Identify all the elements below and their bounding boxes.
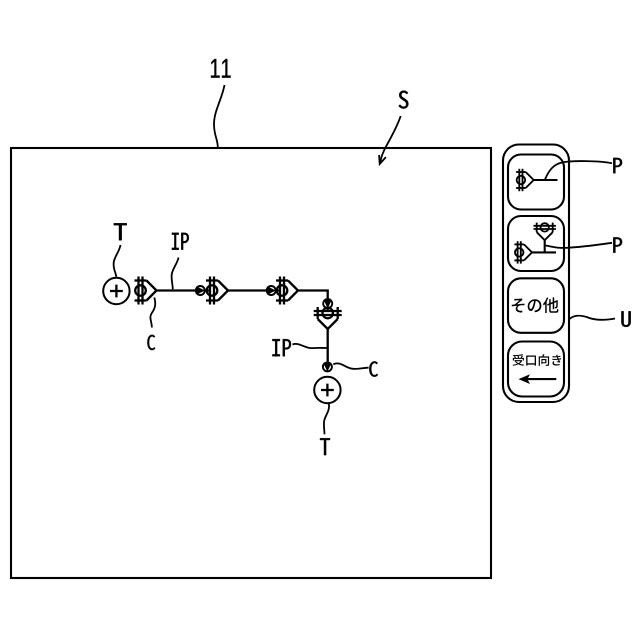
palette button 3 (sono-ta / others) [508, 278, 564, 333]
terminal T2 (circle with cross) [314, 377, 340, 403]
palette button 4 (ukeguchi-muki / socket direction) [508, 342, 564, 397]
leader for upper C [150, 298, 155, 328]
label IP (upper) [172, 233, 189, 250]
palette button P2 (tee pipe) [508, 216, 564, 271]
leader for label U [570, 316, 616, 320]
label IP (lower) [272, 339, 291, 356]
button P1 icon: pipe line [534, 179, 558, 181]
leader for upper T [114, 245, 121, 277]
direction marker C on pipe (before J3) [267, 286, 276, 295]
label C (upper) [147, 335, 155, 350]
label S [399, 91, 409, 109]
button P1 icon: socket joint [516, 169, 534, 191]
direction marker C at lower pipe end (pointing down) [323, 362, 332, 371]
label P (second) [613, 237, 622, 252]
leader line for label 11 [214, 85, 225, 148]
button 3 text sono-ta [512, 297, 559, 313]
palette button P1 (straight pipe) [508, 155, 564, 210]
label T (lower) [320, 438, 330, 455]
label T (upper) [114, 223, 127, 240]
button P2 icon: socket joint left [514, 241, 532, 263]
label C (lower) [369, 361, 378, 376]
button 4 text ukeguchi-muki [513, 354, 562, 366]
button P2 icon: socket joint top (facing down) [534, 223, 556, 241]
pipe fitting J4 (socket joint, facing down) [314, 307, 342, 329]
pipe fitting J2 (socket joint, facing right) [206, 277, 228, 305]
screen frame 11/S [11, 148, 491, 578]
direction marker C on pipe (before J2) [196, 286, 205, 295]
leader for first P [545, 161, 612, 179]
pipe segment IP (between J1 and J2) [157, 289, 211, 291]
pipe segment (between J2 and J3) [228, 289, 280, 291]
button P2 icon: pipe line [532, 251, 556, 253]
pipe fitting J3 (socket joint, facing right) [276, 277, 298, 305]
label P (first) [613, 158, 622, 173]
terminal T1 (circle with cross) [103, 278, 129, 304]
button P2 icon: branch pipe [544, 240, 546, 253]
pipe fitting J1 (socket joint, facing right) [135, 277, 157, 305]
leader for lower IP [293, 344, 328, 348]
leader for upper IP [172, 258, 179, 290]
button 4 left arrow [519, 374, 557, 384]
arrow leader for label S [379, 116, 401, 164]
pipe segment with corner (J3 to J4) [298, 291, 328, 311]
label 11 [211, 59, 231, 78]
vertical pipe segment IP (below J4) [327, 329, 329, 364]
leader for lower T [324, 403, 329, 434]
direction marker C at corner (pointing down) [323, 299, 332, 308]
leader for lower C [333, 363, 368, 369]
label U [621, 311, 630, 327]
palette U outer frame [503, 145, 569, 403]
leader for second P [546, 243, 613, 248]
